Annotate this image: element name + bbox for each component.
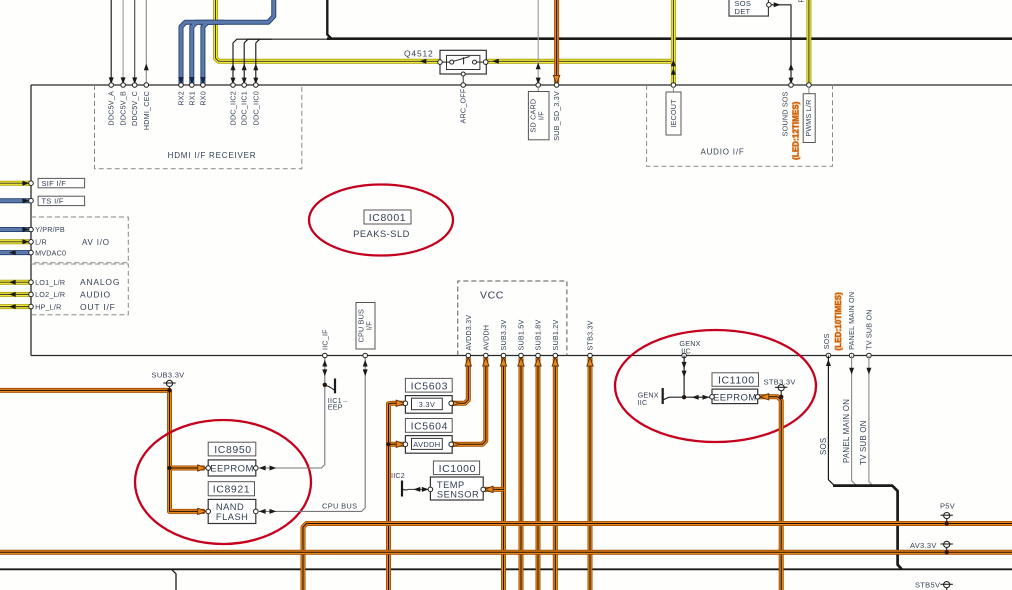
svg-text:(LED:10TIMES): (LED:10TIMES) — [834, 292, 843, 351]
svg-text:NAND: NAND — [216, 502, 244, 512]
wire HDMI_CEC — [144, 0, 149, 85]
wire stub to SD CARD box — [537, 87, 539, 92]
svg-text:STB5V: STB5V — [915, 580, 940, 589]
svg-text:IECOUT: IECOUT — [669, 99, 678, 128]
pin label box IECOUT — [666, 92, 681, 135]
svg-text:TV SUB ON: TV SUB ON — [859, 420, 868, 465]
svg-text:SENSOR: SENSOR — [437, 489, 479, 499]
red ellipse IC8001 — [309, 185, 453, 256]
svg-text:LO1_L/R: LO1_L/R — [35, 278, 65, 287]
pin label box PWMS L/R — [803, 94, 815, 143]
svg-text:RX2: RX2 — [177, 91, 186, 106]
svg-text:TS I/F: TS I/F — [42, 197, 64, 206]
svg-text:IC8950: IC8950 — [214, 444, 251, 456]
bus stub GENX IIC — [638, 388, 685, 407]
svg-text:(LED:12TIMES): (LED:12TIMES) — [791, 101, 800, 160]
dashed box HDMI I/F RECEIVER — [95, 85, 302, 169]
svg-text:P5V: P5V — [940, 502, 955, 511]
svg-text:STB3.3V: STB3.3V — [586, 320, 595, 350]
svg-text:DDC5V_B: DDC5V_B — [119, 91, 128, 126]
svg-text:AV3.3V: AV3.3V — [910, 541, 937, 550]
svg-text:DET: DET — [735, 7, 751, 16]
wire SOS down — [826, 356, 834, 486]
wire IIC2 to TEMP SENSOR — [408, 487, 430, 492]
svg-text:IIC: IIC — [681, 347, 691, 356]
wire thick black bus top — [327, 0, 1012, 39]
IC1100 EEPROM — [710, 373, 760, 404]
wire SOS bus merged — [833, 486, 902, 570]
svg-text:SUB1.8V: SUB1.8V — [534, 320, 543, 351]
wire PWMS L/R yellow vertical — [806, 0, 811, 85]
wire HP_L/R yellow stub out — [0, 304, 30, 309]
red ellipse IC1100 — [615, 330, 816, 442]
wire orange IC5603 out to AVDD3.3V — [451, 357, 472, 406]
svg-text:CPU BUS: CPU BUS — [322, 502, 357, 511]
left pin circles — [29, 181, 34, 309]
svg-text:SUB_SD_3.3V: SUB_SD_3.3V — [552, 91, 561, 141]
svg-text:3.3V: 3.3V — [419, 400, 436, 409]
svg-text:DDC5V_A: DDC5V_A — [107, 91, 116, 126]
wire EEPROM to IIC1 — [258, 356, 327, 471]
svg-text:L/R: L/R — [35, 238, 47, 247]
wire orange branch to TEMP SENSOR — [484, 486, 504, 492]
svg-text:RX1: RX1 — [187, 91, 196, 106]
svg-text:Y/PR/PB: Y/PR/PB — [35, 225, 65, 234]
svg-text:TV SUB ON: TV SUB ON — [865, 309, 874, 350]
wire DDC5V_A — [109, 0, 114, 84]
bus stub IIC1 EEP — [323, 379, 349, 412]
svg-text:SIF I/F: SIF I/F — [42, 179, 67, 188]
svg-text:IC5604: IC5604 — [411, 420, 448, 432]
wire SUB_SD_3.3V orange — [553, 0, 559, 84]
wire DDC5V_C — [132, 0, 137, 84]
svg-text:HDMI I/F RECEIVER: HDMI I/F RECEIVER — [168, 151, 257, 160]
svg-text:IC5603: IC5603 — [411, 380, 448, 392]
wire LO1_L/R yellow stub out — [0, 280, 30, 285]
wire L/R yellow stub — [0, 239, 30, 244]
bottom pin circles on main box — [323, 353, 872, 358]
IC U8921 NAND FLASH — [206, 499, 258, 523]
svg-text:PANEL MAIN ON: PANEL MAIN ON — [842, 399, 851, 463]
svg-text:OUT I/F: OUT I/F — [80, 302, 116, 312]
wire orange regulator feed x=388.5 — [386, 400, 405, 590]
svg-text:IIC_IF: IIC_IF — [320, 329, 329, 350]
wire orange AV3.3V line — [0, 550, 1012, 555]
svg-text:VCC: VCC — [480, 289, 504, 301]
wire RX2/RX1/RX0 blue bus — [178, 0, 274, 85]
IC U8950 EEPROM — [206, 460, 258, 476]
svg-text:I/F: I/F — [536, 111, 545, 120]
svg-text:IC8001: IC8001 — [369, 212, 406, 224]
pin label box SD CARD I/F — [528, 92, 549, 140]
box IC8921 — [208, 482, 254, 496]
power symbol SUB3.3V — [152, 371, 185, 393]
svg-text:AUDIO: AUDIO — [80, 290, 111, 300]
svg-text:SUB1.2V: SUB1.2V — [551, 320, 560, 351]
wire orange IC5604 out to AVDDH — [451, 357, 489, 447]
dashed box AUDIO I/F — [647, 85, 833, 166]
wire yellow Q4512 to IECOUT node — [487, 59, 674, 64]
wire black bottom bus — [0, 569, 1012, 590]
svg-text:RX0: RX0 — [198, 91, 207, 106]
svg-text:DDC_IIC1: DDC_IIC1 — [240, 91, 249, 125]
wire stub to IECOUT box — [672, 87, 674, 92]
wire orange SUB3.3V vcc vertical — [500, 357, 506, 590]
IC5603 regulator — [403, 378, 453, 413]
svg-text:AV I/O: AV I/O — [82, 238, 110, 247]
pin label box CPU BUS I/F — [356, 303, 375, 350]
svg-text:SOUND SOS: SOUND SOS — [781, 91, 790, 136]
svg-text:DDC5V_C: DDC5V_C — [130, 91, 139, 126]
wire TS I/F blue stub — [0, 198, 30, 203]
dashed box VCC — [458, 281, 567, 356]
svg-text:IIC2: IIC2 — [391, 471, 405, 480]
svg-text:PEAKS-SLD: PEAKS-SLD — [353, 229, 410, 239]
svg-text:PANEL MAIN ON: PANEL MAIN ON — [847, 292, 856, 350]
wire orange SUB1.2V — [552, 357, 558, 590]
svg-text:IC1100: IC1100 — [718, 375, 755, 387]
svg-text:I/F: I/F — [365, 321, 374, 330]
pin label GENX IIC (top) — [679, 339, 700, 356]
svg-text:Q4512: Q4512 — [404, 49, 434, 59]
wire MVDAC0 blue stub out — [0, 250, 30, 255]
power symbol STB5V — [915, 580, 953, 590]
wire Y/PR/PB blue stub — [0, 227, 30, 232]
wire yellow bus to Q4512 — [216, 0, 440, 64]
IC5604 regulator — [403, 419, 453, 454]
wire SD CARD I/F — [536, 0, 541, 85]
bus stub IIC2 — [391, 471, 408, 496]
wire PANEL MAIN ON down — [849, 356, 856, 486]
dashed box AV I/O — [31, 217, 128, 263]
power symbol P5V — [940, 502, 955, 526]
svg-text:EEPROM: EEPROM — [210, 464, 254, 475]
box SOS DET — [729, 0, 771, 16]
svg-text:DDC_IIC0: DDC_IIC0 — [251, 91, 260, 125]
wire IECOUT yellow vertical — [671, 0, 676, 85]
power symbol STB3.3V — [764, 377, 796, 399]
top pin circles on main box edge — [109, 83, 811, 88]
transistor Q4512 — [404, 49, 488, 86]
wire TV SUB ON down — [866, 356, 872, 486]
wire orange STB3.3V to IC1100 EEPROM — [759, 394, 781, 590]
svg-text:SOS: SOS — [822, 333, 831, 349]
wire SIF I/F yellow stub — [0, 181, 30, 186]
svg-text:AVDDH: AVDDH — [413, 440, 440, 449]
svg-text:SUB3.3V: SUB3.3V — [499, 320, 508, 351]
IC1000 TEMP SENSOR — [428, 461, 485, 500]
wire NAND to CPU BUS I/F — [258, 356, 368, 514]
svg-text:SOS: SOS — [819, 438, 828, 455]
wire orange P5V line — [303, 524, 1012, 590]
box IC8950 — [208, 442, 256, 456]
svg-text:DDC_IIC2: DDC_IIC2 — [229, 91, 238, 125]
wire GENX to EEPROM IC1100 — [684, 395, 711, 400]
svg-text:P: P — [797, 0, 806, 3]
power symbol AV3.3V — [910, 541, 953, 554]
svg-text:EEPROM: EEPROM — [713, 392, 757, 403]
box TS I/F — [38, 196, 85, 206]
svg-text:HDMI_CEC: HDMI_CEC — [142, 91, 151, 130]
svg-text:IC8921: IC8921 — [213, 484, 250, 496]
wire GENX IIC vertical — [682, 356, 687, 400]
box IC8001 — [364, 210, 411, 224]
svg-text:AVDD3.3V: AVDD3.3V — [464, 315, 473, 351]
wire orange SUB1.5V — [518, 357, 524, 590]
svg-text:AUDIO I/F: AUDIO I/F — [700, 148, 744, 157]
svg-text:LO2_L/R: LO2_L/R — [35, 290, 65, 299]
box SIF I/F — [38, 178, 85, 188]
svg-text:ANALOG: ANALOG — [80, 277, 120, 287]
svg-text:STB3.3V: STB3.3V — [764, 377, 796, 386]
wire orange SUB1.8V — [535, 357, 541, 590]
wire DDC_IIC bundle — [233, 39, 332, 85]
svg-text:SUB1.5V: SUB1.5V — [517, 320, 526, 351]
dashed box ANALOG AUDIO OUT I/F — [31, 264, 128, 315]
wire LO2_L/R yellow stub out — [0, 292, 30, 297]
svg-text:IC1000: IC1000 — [439, 463, 476, 475]
wire DDC5V_B — [121, 0, 126, 84]
svg-text:IIC: IIC — [638, 398, 648, 407]
svg-text:AVDDH: AVDDH — [481, 325, 490, 351]
svg-text:ARC_OFF: ARC_OFF — [459, 88, 468, 123]
svg-text:HP_L/R: HP_L/R — [35, 302, 61, 311]
red ellipse IC8950/IC8921 — [135, 420, 311, 544]
wire orange STB3.3V — [587, 357, 593, 590]
wire SOS DET to SOUND SOS — [771, 2, 793, 85]
main IC box (system LSI) — [31, 85, 1012, 356]
svg-text:FLASH: FLASH — [216, 512, 248, 522]
svg-text:PWMS L/R: PWMS L/R — [804, 100, 813, 137]
svg-text:SUB3.3V: SUB3.3V — [152, 371, 185, 380]
svg-text:MVDAC0: MVDAC0 — [35, 248, 66, 257]
wire orange SUB3.3V net to EEPROM/NAND — [0, 390, 207, 514]
wire stub to PWMS box — [808, 87, 810, 94]
svg-text:TEMP: TEMP — [437, 480, 465, 490]
